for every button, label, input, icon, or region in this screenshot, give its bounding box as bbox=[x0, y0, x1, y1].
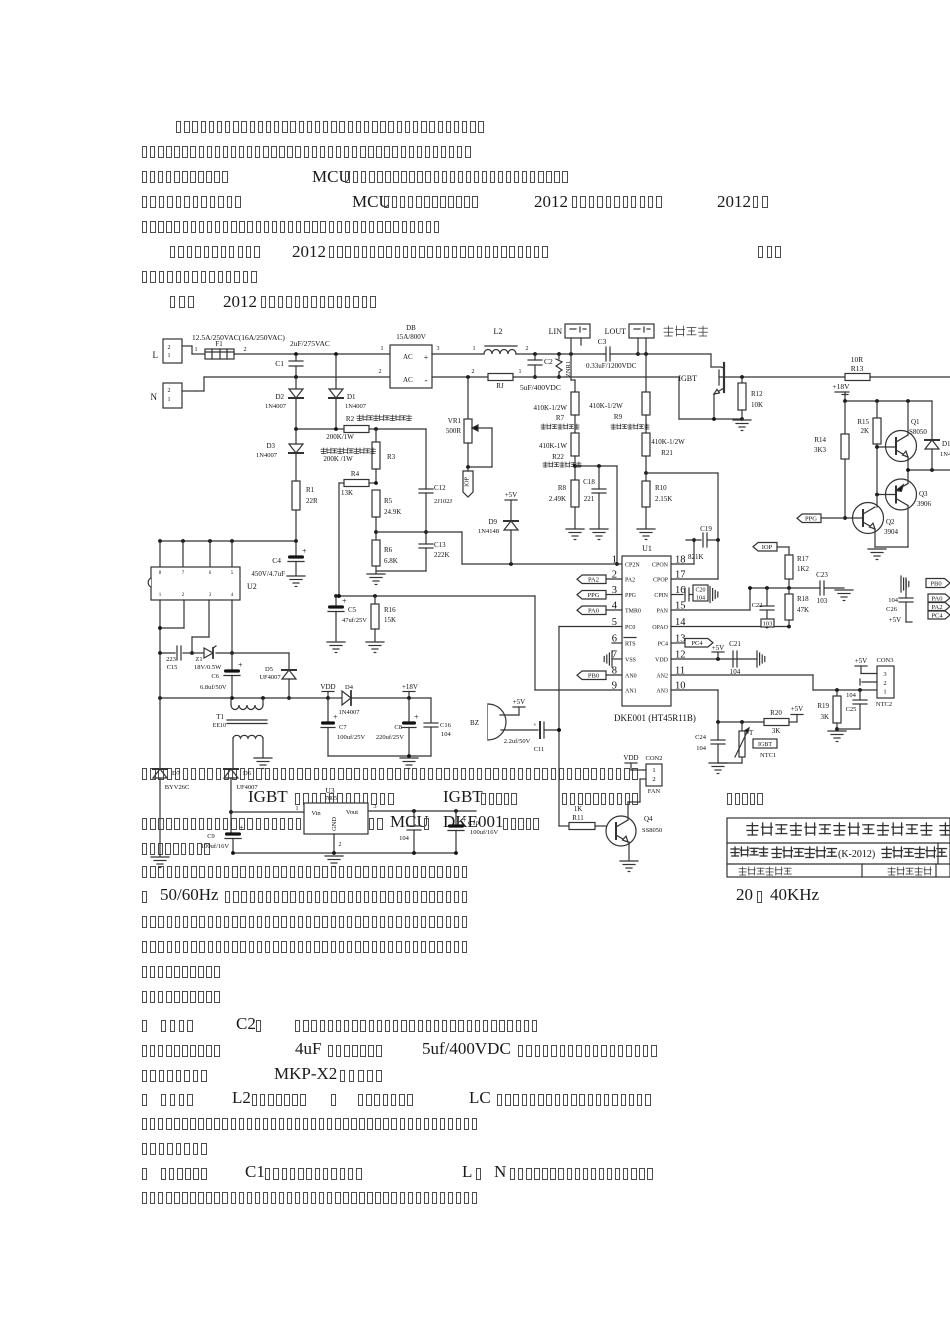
resistor R16 bbox=[371, 596, 396, 641]
zener Z1 bbox=[192, 646, 232, 671]
svg-text:PC0: PC0 bbox=[625, 625, 635, 631]
svg-text:C12: C12 bbox=[434, 484, 446, 492]
svg-text:R4: R4 bbox=[351, 470, 360, 478]
svg-text:CPON: CPON bbox=[652, 563, 669, 569]
svg-text:RJ: RJ bbox=[496, 382, 504, 390]
svg-text:1N4007: 1N4007 bbox=[256, 452, 278, 459]
ground C5 bbox=[327, 642, 345, 653]
power +18V node bbox=[402, 683, 418, 700]
wire R8 node to C18 bbox=[575, 464, 617, 468]
title drawing name label bbox=[731, 847, 768, 856]
svg-text:10K: 10K bbox=[751, 401, 763, 409]
regulator U3 bbox=[296, 786, 377, 848]
svg-text:1N4148: 1N4148 bbox=[478, 528, 499, 535]
svg-text:2: 2 bbox=[168, 388, 171, 394]
wire RJ to emitter bus bbox=[513, 376, 679, 378]
svg-text:+5V: +5V bbox=[791, 705, 804, 713]
diode D5 bbox=[232, 653, 296, 700]
svg-text:C25: C25 bbox=[846, 706, 857, 713]
resistor R18 bbox=[785, 588, 809, 627]
svg-text:C18: C18 bbox=[583, 478, 595, 486]
capacitor C9 bbox=[201, 810, 244, 853]
capacitor C8 bbox=[376, 698, 419, 756]
svg-text:AN0: AN0 bbox=[625, 674, 637, 680]
svg-text:1N4007: 1N4007 bbox=[345, 403, 367, 410]
power +5V pin12 bbox=[712, 644, 725, 659]
svg-text:PA0: PA0 bbox=[932, 595, 943, 602]
resistor R21 bbox=[642, 433, 685, 473]
diode D7 bbox=[153, 653, 189, 856]
node PB0-2 bbox=[926, 579, 950, 588]
svg-text:1N4007: 1N4007 bbox=[339, 709, 361, 716]
svg-text:1K2: 1K2 bbox=[797, 565, 810, 573]
wire U2 pin4 bbox=[230, 600, 234, 655]
svg-text:R3: R3 bbox=[387, 453, 396, 461]
transistor Q4 bbox=[606, 779, 662, 860]
svg-text:C6: C6 bbox=[211, 673, 219, 680]
node PA0-2 bbox=[928, 594, 950, 602]
svg-text:T: T bbox=[749, 729, 754, 737]
wire aux gnd bus bbox=[328, 754, 431, 758]
svg-text:100uf/25V: 100uf/25V bbox=[337, 734, 365, 741]
svg-text:R12: R12 bbox=[751, 390, 763, 398]
svg-text:9: 9 bbox=[612, 681, 617, 692]
thermistor NTC1 bbox=[735, 722, 754, 763]
svg-text:+: + bbox=[239, 824, 244, 833]
resistor R1 bbox=[292, 481, 318, 541]
connector LIN bbox=[549, 324, 590, 354]
capacitor C2 bbox=[528, 354, 553, 379]
wire VDD line bbox=[158, 696, 328, 700]
svg-text:C22: C22 bbox=[752, 602, 763, 609]
svg-text:+: + bbox=[424, 353, 429, 362]
svg-text:1K: 1K bbox=[574, 805, 583, 813]
svg-text:C1: C1 bbox=[275, 359, 284, 368]
diode D2 bbox=[265, 377, 303, 429]
svg-text:RTS: RTS bbox=[625, 642, 636, 648]
ground R10 bbox=[637, 529, 655, 540]
svg-text:10R: 10R bbox=[851, 355, 864, 364]
svg-text:410K-1/2W: 410K-1/2W bbox=[534, 404, 568, 412]
svg-text:L: L bbox=[153, 350, 159, 360]
wire R2 to C12 bbox=[369, 427, 426, 489]
wire gate line bbox=[719, 375, 845, 379]
svg-text:+5V: +5V bbox=[712, 644, 725, 652]
diode D4 bbox=[328, 684, 431, 716]
svg-text:R1: R1 bbox=[306, 486, 315, 494]
svg-text:Q1: Q1 bbox=[911, 418, 920, 426]
title drawing name bbox=[772, 847, 946, 860]
svg-text:DKE001 (HT45R11B): DKE001 (HT45R11B) bbox=[614, 713, 696, 723]
node PA2-2 bbox=[928, 603, 950, 611]
svg-text:2: 2 bbox=[472, 369, 475, 375]
resistor R3 bbox=[321, 429, 396, 483]
svg-text:D10: D10 bbox=[942, 440, 950, 448]
svg-text:223: 223 bbox=[166, 656, 176, 663]
svg-text:CON2: CON2 bbox=[646, 755, 663, 762]
svg-text:UF4007: UF4007 bbox=[236, 784, 258, 791]
ground C24 bbox=[709, 763, 727, 774]
svg-text:13K: 13K bbox=[341, 489, 353, 497]
wire R10 node to C19 net bbox=[646, 473, 718, 540]
capacitor C3 bbox=[586, 337, 640, 370]
svg-text:+: + bbox=[533, 723, 537, 729]
capacitor C24 bbox=[695, 722, 725, 762]
capacitor C5 bbox=[328, 596, 367, 641]
power +5V BZ bbox=[513, 698, 526, 707]
svg-text:1: 1 bbox=[381, 346, 384, 352]
svg-text:450V/4.7uF: 450V/4.7uF bbox=[251, 570, 285, 578]
svg-text:3904: 3904 bbox=[884, 528, 899, 536]
svg-text:1: 1 bbox=[883, 689, 886, 696]
resistor R19 bbox=[817, 690, 841, 729]
transformer T1 bbox=[213, 698, 267, 769]
IC U2 bbox=[148, 541, 257, 600]
resistor R9 bbox=[589, 354, 650, 433]
svg-text:LIN: LIN bbox=[549, 327, 563, 336]
capacitor C1 bbox=[275, 352, 303, 379]
svg-text:2: 2 bbox=[526, 346, 529, 352]
power +18V bbox=[832, 382, 850, 401]
resistor R15 bbox=[857, 401, 881, 447]
wire U2 pin1 down bbox=[159, 600, 161, 653]
wire 18V rail bbox=[843, 399, 932, 403]
svg-text:C21: C21 bbox=[729, 640, 741, 648]
svg-text:R7: R7 bbox=[556, 414, 565, 422]
node PC4 bbox=[671, 639, 713, 648]
svg-text:200K /1W: 200K /1W bbox=[323, 455, 353, 463]
wire pin6 stub bbox=[612, 642, 622, 644]
svg-text:6.8K: 6.8K bbox=[384, 557, 398, 565]
svg-text:AN3: AN3 bbox=[656, 689, 668, 695]
svg-text:+: + bbox=[302, 547, 307, 556]
svg-text:104: 104 bbox=[441, 731, 452, 738]
svg-text:LOUT: LOUT bbox=[605, 327, 626, 336]
svg-text:VDD: VDD bbox=[320, 683, 335, 691]
ground IGBT emitter bbox=[733, 420, 751, 431]
resistor R12 bbox=[738, 377, 763, 419]
node IGBT temp bbox=[753, 739, 777, 759]
svg-text:CPOP: CPOP bbox=[653, 578, 669, 584]
wire fuse to DB pin1 bbox=[234, 346, 390, 354]
resistor RJ bbox=[488, 369, 522, 390]
wire R4 drop bbox=[337, 483, 341, 598]
wire pin14 OPAO bbox=[671, 625, 791, 629]
resistor R20 bbox=[764, 709, 797, 735]
capacitor C13 bbox=[419, 530, 450, 571]
svg-text:PPG: PPG bbox=[805, 516, 817, 523]
svg-text:1: 1 bbox=[519, 369, 522, 375]
capacitor C21 bbox=[729, 640, 765, 676]
capacitor C20 bbox=[671, 585, 718, 603]
svg-text:15K: 15K bbox=[384, 616, 396, 624]
svg-text:2.49K: 2.49K bbox=[549, 495, 566, 503]
svg-text:PB0: PB0 bbox=[930, 580, 941, 587]
svg-text:U1: U1 bbox=[642, 544, 652, 553]
ground R16 bbox=[366, 642, 384, 653]
svg-text:D5: D5 bbox=[265, 666, 273, 673]
svg-text:D6: D6 bbox=[243, 770, 252, 777]
resistor R17 bbox=[785, 555, 810, 588]
ground T1 secondary bbox=[254, 758, 272, 769]
wire pin10 AN3 bbox=[671, 690, 718, 722]
svg-text:C10: C10 bbox=[468, 820, 479, 827]
wire U2 pin3 bbox=[190, 600, 209, 655]
svg-text:CP2N: CP2N bbox=[625, 563, 640, 569]
svg-text:BZ: BZ bbox=[470, 719, 479, 727]
svg-text:+5V: +5V bbox=[889, 616, 902, 624]
wire pin5 PC0 bbox=[559, 627, 622, 731]
varistor ZNR1 bbox=[556, 354, 572, 379]
svg-text:104: 104 bbox=[888, 597, 899, 604]
svg-text:100uf/16V: 100uf/16V bbox=[201, 843, 229, 850]
svg-text:R13: R13 bbox=[851, 364, 864, 373]
node PC4-2 bbox=[928, 611, 950, 619]
title block bbox=[727, 818, 950, 877]
ground VSS bbox=[604, 651, 622, 667]
svg-text:PC4: PC4 bbox=[691, 640, 703, 647]
svg-text:2K: 2K bbox=[860, 427, 869, 435]
svg-text:NTC1: NTC1 bbox=[760, 752, 776, 759]
svg-text:47K: 47K bbox=[797, 606, 809, 614]
capacitor C12 bbox=[419, 484, 453, 532]
svg-text:1: 1 bbox=[652, 767, 655, 774]
svg-text:IOP: IOP bbox=[465, 477, 471, 487]
svg-text:R20: R20 bbox=[770, 709, 782, 717]
svg-text:5uF/400VDC: 5uF/400VDC bbox=[520, 383, 561, 392]
svg-text:410K-1W: 410K-1W bbox=[539, 442, 567, 450]
title company name bbox=[747, 823, 950, 835]
ground U3 bbox=[325, 856, 343, 867]
resistor R13 bbox=[845, 355, 870, 381]
capacitor C19 bbox=[671, 525, 720, 564]
svg-text:D4: D4 bbox=[345, 684, 354, 691]
svg-text:R21: R21 bbox=[661, 449, 673, 457]
svg-text:R22: R22 bbox=[552, 453, 564, 461]
U1 pin texts bbox=[612, 555, 687, 695]
svg-text:(K-2012): (K-2012) bbox=[838, 849, 875, 860]
buzzer BZ bbox=[470, 704, 519, 740]
svg-text:12.5A/250VAC(16A/250VAC): 12.5A/250VAC(16A/250VAC) bbox=[192, 333, 285, 342]
svg-text:D7: D7 bbox=[172, 770, 181, 777]
wire pin11 AN2 bbox=[671, 675, 877, 692]
wire Vin bbox=[231, 811, 304, 813]
svg-text:NTC2: NTC2 bbox=[876, 701, 892, 708]
connector CN-N bbox=[151, 383, 197, 408]
svg-text:+: + bbox=[414, 713, 419, 722]
wire U2 pin2 bbox=[158, 600, 184, 630]
wire DB pin3 to L2 bbox=[432, 346, 484, 354]
ground C23 bbox=[835, 590, 853, 601]
node PA2 bbox=[577, 575, 622, 584]
svg-text:OPAO: OPAO bbox=[652, 625, 668, 631]
svg-text:C15: C15 bbox=[167, 664, 178, 671]
svg-text:+: + bbox=[462, 816, 467, 825]
svg-text:EE10: EE10 bbox=[213, 723, 226, 729]
svg-text:Q4: Q4 bbox=[644, 815, 653, 823]
svg-text:C7: C7 bbox=[339, 724, 347, 731]
svg-text:L2: L2 bbox=[494, 327, 503, 336]
svg-text:R9: R9 bbox=[614, 413, 623, 421]
svg-text:D3: D3 bbox=[266, 442, 275, 450]
svg-text:3K: 3K bbox=[820, 713, 829, 721]
svg-text:2.2uf/50V: 2.2uf/50V bbox=[504, 738, 531, 745]
wire L-line to fuse bbox=[192, 347, 205, 354]
capacitor C6 bbox=[200, 653, 243, 698]
connector LOUT bbox=[605, 324, 654, 354]
svg-text:+5V: +5V bbox=[505, 491, 518, 499]
svg-text:PA0: PA0 bbox=[588, 608, 599, 615]
svg-text:AN2: AN2 bbox=[656, 674, 668, 680]
capacitor C7 bbox=[321, 698, 365, 756]
svg-text:R10: R10 bbox=[655, 484, 667, 492]
capacitor C22 bbox=[752, 588, 774, 628]
svg-text:104: 104 bbox=[846, 692, 857, 699]
wire pin15 bbox=[671, 588, 750, 610]
svg-text:2J102J: 2J102J bbox=[434, 498, 453, 505]
svg-text:1: 1 bbox=[473, 346, 476, 352]
svg-text:BYV26C: BYV26C bbox=[165, 784, 190, 791]
svg-text:R15: R15 bbox=[857, 418, 869, 426]
svg-text:C24: C24 bbox=[695, 734, 707, 741]
svg-text:IGBT: IGBT bbox=[758, 742, 772, 748]
svg-text:7805: 7805 bbox=[325, 796, 337, 802]
svg-text:AC: AC bbox=[403, 376, 413, 384]
wire gate drive from R13 bbox=[870, 376, 950, 378]
svg-text:2: 2 bbox=[652, 776, 655, 783]
svg-text:410K-1/2W: 410K-1/2W bbox=[651, 438, 685, 446]
svg-text:T1: T1 bbox=[216, 713, 224, 721]
wire VDD pin12 bbox=[671, 657, 757, 661]
ground aux bbox=[400, 758, 418, 769]
svg-text:2uF/275VAC: 2uF/275VAC bbox=[290, 339, 330, 348]
svg-text:2: 2 bbox=[379, 369, 382, 375]
svg-text:+: + bbox=[333, 713, 338, 722]
svg-text:PC4: PC4 bbox=[931, 612, 943, 619]
node PPG bbox=[577, 591, 622, 600]
svg-text:1: 1 bbox=[168, 397, 171, 403]
svg-text:R16: R16 bbox=[384, 606, 396, 614]
transistor Q2 bbox=[843, 447, 898, 547]
svg-text:R17: R17 bbox=[797, 555, 809, 563]
svg-text:3: 3 bbox=[374, 804, 377, 810]
svg-text:104: 104 bbox=[399, 835, 410, 842]
svg-text:VR1: VR1 bbox=[448, 417, 462, 425]
wire N-line bbox=[196, 369, 390, 391]
svg-text:6.8uf/50V: 6.8uf/50V bbox=[200, 684, 227, 691]
power +5V R20 bbox=[791, 705, 804, 715]
svg-text:C19: C19 bbox=[700, 525, 712, 533]
svg-text:U2: U2 bbox=[247, 582, 257, 591]
ground driver bbox=[868, 547, 908, 560]
svg-text:821K: 821K bbox=[688, 553, 704, 561]
svg-text:+5V: +5V bbox=[855, 657, 868, 665]
svg-text:C4: C4 bbox=[272, 556, 281, 565]
svg-text:Vout: Vout bbox=[346, 809, 358, 816]
svg-text:C23: C23 bbox=[816, 571, 828, 579]
svg-text:+18V: +18V bbox=[402, 683, 418, 691]
svg-text:2: 2 bbox=[339, 842, 342, 848]
wire NTC node bbox=[716, 720, 764, 724]
capacitor C15 bbox=[158, 646, 192, 671]
svg-text:D1: D1 bbox=[347, 393, 356, 401]
svg-text:2: 2 bbox=[883, 680, 886, 687]
resistor R8 bbox=[549, 480, 579, 528]
svg-text:C13: C13 bbox=[434, 541, 446, 549]
svg-text:VSS: VSS bbox=[625, 658, 636, 664]
svg-text:R6: R6 bbox=[384, 546, 393, 554]
resistor R14 bbox=[814, 401, 849, 518]
svg-text:CPIN: CPIN bbox=[654, 593, 668, 599]
svg-text:222K: 222K bbox=[434, 551, 450, 559]
wire sample to pin1 bbox=[376, 532, 622, 566]
svg-text:1: 1 bbox=[195, 347, 198, 353]
wire D-node bbox=[294, 427, 344, 431]
ground C18 bbox=[590, 529, 608, 540]
svg-text:3: 3 bbox=[883, 671, 886, 678]
svg-text:PA2: PA2 bbox=[625, 578, 635, 584]
svg-text:AN1: AN1 bbox=[625, 689, 637, 695]
resistor R7 bbox=[534, 392, 580, 433]
svg-text:C11: C11 bbox=[534, 746, 545, 753]
svg-text:R8: R8 bbox=[558, 484, 567, 492]
svg-text:R11: R11 bbox=[572, 814, 584, 822]
wire pin17 bbox=[671, 540, 718, 579]
capacitor C10 bbox=[448, 811, 498, 853]
svg-text:DB: DB bbox=[406, 324, 416, 332]
resistor R6 bbox=[372, 540, 398, 573]
capacitor C14 bbox=[399, 811, 421, 853]
svg-text:+: + bbox=[238, 661, 243, 670]
svg-text:104: 104 bbox=[696, 745, 707, 752]
svg-text:R2: R2 bbox=[346, 415, 355, 423]
node IOP-2 bbox=[753, 543, 789, 556]
wire L2 to LIN node bbox=[516, 346, 604, 356]
svg-text:2: 2 bbox=[244, 347, 247, 353]
node PA0 bbox=[577, 606, 622, 615]
svg-text:PC4: PC4 bbox=[658, 642, 668, 648]
resistor R2 bbox=[326, 415, 411, 441]
capacitor C23 bbox=[816, 571, 844, 605]
label heating coil bbox=[664, 326, 708, 336]
resistor R22 bbox=[539, 433, 581, 467]
capacitor C18 bbox=[583, 466, 606, 528]
svg-text:N: N bbox=[151, 392, 158, 402]
ground D7 bbox=[151, 857, 169, 868]
svg-text:+: + bbox=[342, 597, 347, 606]
capacitor C11 bbox=[501, 722, 561, 753]
svg-text:IGBT: IGBT bbox=[678, 374, 697, 383]
svg-text:Q2: Q2 bbox=[886, 518, 895, 526]
wire R17 node bbox=[748, 586, 820, 590]
svg-text:-: - bbox=[425, 375, 428, 385]
svg-text:R18: R18 bbox=[797, 595, 809, 603]
svg-text:PB0: PB0 bbox=[588, 673, 599, 680]
svg-text:3K3: 3K3 bbox=[814, 446, 827, 454]
wire LIN to R7 bbox=[571, 354, 575, 392]
label C1 value bbox=[290, 339, 330, 348]
resistor R4 bbox=[339, 470, 378, 497]
svg-text:SS8050: SS8050 bbox=[642, 827, 662, 834]
ground Q4 bbox=[620, 861, 638, 872]
svg-text:U3: U3 bbox=[325, 786, 334, 795]
wire bus to AN1 bbox=[535, 596, 622, 690]
resistor R5 bbox=[372, 490, 401, 540]
power +5V CON3 bbox=[855, 657, 877, 674]
svg-text:PPG: PPG bbox=[588, 592, 600, 599]
node IOP-1 bbox=[463, 467, 473, 497]
title row3 bbox=[739, 867, 931, 875]
